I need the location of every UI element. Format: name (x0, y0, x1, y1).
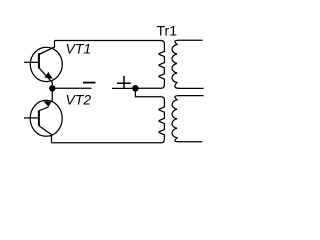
winding W2b secondary lower (172, 96, 204, 142)
transistor VT1 collector lead (39, 41, 55, 55)
transistor VT1 base bar (38, 53, 40, 68)
winding W1a primary upper half with wire from VT1 collector (55, 41, 165, 89)
transistor VT1 emitter arrow (44, 72, 53, 79)
wire node A down to VT2 emitter (51, 88, 53, 101)
wire node A to battery minus terminal (52, 87, 91, 89)
svg-text:Tr1: Tr1 (157, 22, 178, 38)
node B center tap junction dot (132, 85, 139, 92)
winding W2a secondary upper (172, 40, 204, 88)
transistor VT2 emitter arrow (44, 101, 53, 107)
transistor VT2 base lead wire (24, 117, 39, 119)
wire battery plus to center tap (112, 87, 135, 89)
svg-text:VT1: VT1 (66, 40, 92, 56)
svg-text:VT2: VT2 (66, 91, 92, 107)
transistor VT2 collector lead (39, 126, 52, 143)
battery plus polarity mark (117, 76, 131, 89)
battery minus polarity mark (83, 82, 96, 84)
transistor Q2 VT2 circle (30, 100, 62, 136)
transistor VT2 base bar (38, 110, 40, 125)
transistor VT1 emitter lead (39, 68, 53, 87)
transistor VT2 emitter lead (39, 107, 49, 111)
winding W1b primary lower half with wire to VT2 collector (52, 91, 165, 143)
node A common emitter junction dot (49, 85, 55, 91)
transistor Q1 VT1 circle (30, 47, 62, 81)
transistor VT1 base lead wire (24, 61, 39, 63)
